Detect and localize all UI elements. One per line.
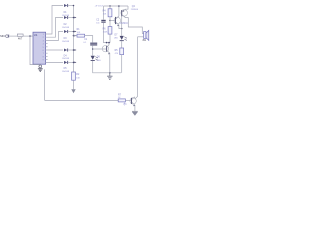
- svg-text:1N4148: 1N4148: [62, 15, 70, 17]
- node R6 collector dot: [108, 42, 110, 44]
- wire pin2 riser to D2: [46, 18, 63, 38]
- resistor R6: [109, 21, 111, 27]
- IC U1 body: [33, 32, 46, 64]
- bottom rail: [45, 99, 119, 101]
- wire ground to bottom rail: [44, 69, 46, 100]
- svg-text:10K: 10K: [76, 78, 80, 80]
- ground G3: [132, 110, 138, 112]
- microphone jack symbol: [6, 35, 9, 38]
- base node dot: [109, 20, 111, 22]
- node LED2 feed: [121, 28, 123, 30]
- diode D1: [64, 4, 74, 7]
- svg-text:LED: LED: [114, 37, 119, 39]
- svg-text:1N4148: 1N4148: [62, 41, 70, 43]
- wire rail down to C2: [103, 6, 105, 20]
- wire to Q4 base: [93, 48, 107, 50]
- svg-text:10K: 10K: [77, 32, 81, 34]
- IC left input pin stub: [31, 35, 33, 37]
- resistor R7: [118, 99, 125, 102]
- resistor R1: [77, 34, 85, 37]
- svg-text:1N4148: 1N4148: [62, 27, 70, 29]
- wire R7 to Q3 base: [125, 99, 131, 101]
- wire pin1 riser to D1: [46, 6, 63, 35]
- wire mic to R3: [9, 35, 17, 37]
- bus junction dots: [73, 5, 75, 7]
- wire node to Q1 base: [110, 20, 115, 22]
- wire pin3 riser to D3: [46, 32, 63, 41]
- rail junction dot R4: [109, 5, 111, 7]
- node collector dot: [106, 42, 108, 44]
- svg-text:1N4148: 1N4148: [62, 58, 70, 60]
- wire R3 to IC: [23, 35, 33, 37]
- transistor Q4: [102, 43, 110, 73]
- wire C1 down: [92, 46, 94, 56]
- node input junction: [29, 35, 31, 37]
- transistor Q3: [130, 97, 136, 112]
- wire Q2 base column to LED2: [121, 16, 123, 35]
- svg-text:1N4148: 1N4148: [62, 71, 70, 73]
- resistor R4: [109, 6, 111, 9]
- wire R1 to C1: [85, 36, 93, 43]
- diode D5: [64, 61, 74, 64]
- IC pin numbers: [43, 34, 45, 62]
- LED D6: [91, 56, 98, 61]
- wire LED2 to R5: [121, 41, 123, 48]
- wire LED down to ground run: [93, 61, 122, 73]
- svg-text:2N3906: 2N3906: [131, 9, 139, 11]
- svg-text:10K: 10K: [103, 13, 107, 15]
- rail junction dot Q1 collector: [118, 5, 120, 7]
- wire C2 down to node: [104, 23, 111, 43]
- node R1 feed: [73, 35, 75, 37]
- capacitor C2: [101, 20, 105, 21]
- diode D4: [64, 48, 74, 51]
- wire speaker to Q3 collector: [135, 37, 138, 99]
- svg-text:+9 VOLT: +9 VOLT: [95, 6, 104, 8]
- svg-text:MIC: MIC: [0, 34, 5, 38]
- ground G1 under IC: [39, 65, 42, 68]
- IC pin stubs right: [46, 44, 48, 60]
- resistor R2 on bus: [72, 72, 76, 80]
- svg-text:LED: LED: [97, 60, 102, 62]
- wire pin9 to D5: [46, 61, 63, 63]
- wire R5 to ground run: [121, 55, 123, 73]
- transistor Q2: [121, 6, 142, 34]
- diode D3: [64, 30, 74, 33]
- svg-text:4K7: 4K7: [18, 38, 23, 41]
- bus vertical: [73, 6, 75, 73]
- wire R4 to base node: [109, 17, 111, 21]
- speaker SP1: [138, 30, 149, 40]
- bus net arrows: [74, 17, 76, 19]
- resistor R5: [120, 48, 124, 55]
- resistor R3 (input): [17, 34, 23, 36]
- power rail: [104, 5, 129, 7]
- svg-text:U1: U1: [34, 33, 38, 37]
- node base feed: [92, 48, 94, 50]
- ground G2: [107, 73, 112, 80]
- svg-text:100K: 100K: [103, 31, 108, 33]
- wire bus to R1: [74, 35, 78, 37]
- transistor Q1: [114, 6, 122, 29]
- wire pin6 to D4: [46, 49, 63, 51]
- ground G2 node: [109, 72, 111, 74]
- diode D2: [64, 16, 74, 19]
- svg-text:2N3904: 2N3904: [120, 23, 129, 25]
- svg-text:8Ω: 8Ω: [143, 39, 146, 42]
- LED D7: [120, 36, 127, 41]
- bus end arrow to ground: [73, 80, 75, 89]
- capacitor C1: [90, 43, 97, 44]
- wire input ground drop: [30, 36, 40, 65]
